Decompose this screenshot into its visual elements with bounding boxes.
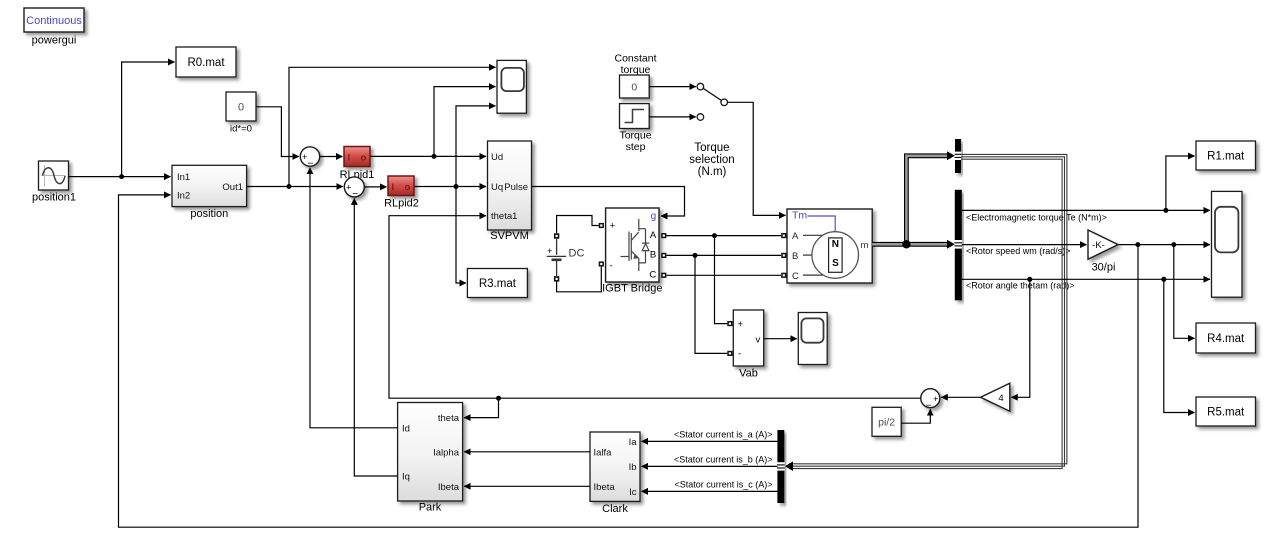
junction wm feedback [1135,242,1140,247]
svg-text:-: - [610,261,613,272]
svg-text:Pulse: Pulse [504,182,528,193]
junction on Out1 wire [287,184,292,189]
subsystem Park [398,403,463,502]
gain 4 (left pointing) [981,383,1010,411]
wire branch to scope1 input2 [434,87,496,157]
junction on Ud wire [432,154,437,159]
wire branch theta to Park [464,398,498,417]
svg-text:R3.mat: R3.mat [479,278,517,290]
wire stator current a to Clark Ia [642,440,778,442]
constant id*=0 [226,92,256,121]
svg-text:Id: Id [402,423,410,434]
sine source position1 [39,161,69,190]
svg-text:Ic: Ic [629,487,637,498]
junction on Te wire [1163,208,1168,213]
junction on position1 wire [119,174,124,179]
svg-text:step: step [626,141,646,153]
junction thetam to gain4 [1027,277,1032,282]
svg-text:torque: torque [621,64,651,76]
wire torque step to switch [649,116,696,118]
svg-text:position: position [190,208,228,220]
junction on phase A [712,233,717,238]
wire IGBT A to motor A [666,235,781,237]
svg-text:position1: position1 [32,192,76,204]
gain 30/pi [1088,230,1118,259]
wire gain4 to sum3 [941,396,980,398]
svg-text:S: S [832,258,839,269]
wire wm to gain [962,244,1087,246]
svg-text:Ib: Ib [629,462,637,473]
svg-text:Ialfa: Ialfa [594,447,613,458]
svg-text:RLpid2: RLpid2 [384,198,419,210]
wire speed feedback to In2 [119,195,1139,527]
wire branch to R1.mat [1166,156,1195,210]
wire stator current b to Clark Ib [642,465,778,467]
To File R4.mat [1196,323,1256,353]
svg-text:powergui: powergui [32,35,77,47]
svg-text:o: o [405,182,411,193]
svg-text:<Rotor speed wm (rad/s)>: <Rotor speed wm (rad/s)> [966,246,1071,256]
svg-text:DC: DC [569,247,585,259]
wire gain to scope3 [1118,244,1210,246]
wire branch phase B to Vab minus [695,255,727,353]
voltage measurement Vab [733,310,763,366]
stator current bus selector (bottom) [777,430,785,503]
wire IGBT C to motor C [666,274,781,276]
DC voltage source [547,233,585,281]
junction thetam to R5 [1161,277,1166,282]
svg-text:4: 4 [998,393,1003,404]
junction wm to R4 [1171,242,1176,247]
wire Clark Ibeta to Park Ibeta [464,485,590,487]
svg-text:0: 0 [631,81,637,93]
svg-text:B: B [650,250,656,261]
svg-text:pi/2: pi/2 [878,416,895,428]
svg-text:R1.mat: R1.mat [1207,151,1245,163]
wire thetam to scope3 [962,278,1210,280]
svg-text:+: + [302,152,307,162]
wire switch to motor Tm [728,102,786,215]
svg-text:Ud: Ud [491,152,503,163]
wire Pulse to IGBT g [532,187,685,217]
svg-text:-: - [738,349,741,360]
svg-text:Iq: Iq [402,472,410,483]
small bus selector (top) [955,139,962,173]
IGBT A B C port squares [661,233,666,278]
svg-text:<Stator current is_c (A)>: <Stator current is_c (A)> [674,480,772,490]
svg-text:-K-: -K- [1092,240,1105,251]
wire RLpid1 to Ud [370,155,486,157]
wire branch to R5.mat [1164,279,1195,412]
wire Vab v to scope2 [764,338,797,340]
svg-text:<Stator current is_b (A)>: <Stator current is_b (A)> [674,455,773,465]
wire sum1 to RLpid1 [320,156,343,158]
svg-text:B: B [792,251,798,262]
scope1 (3-input scope) [497,60,526,113]
wire Out1 to sum2 [247,186,343,188]
svg-text:+: + [610,220,616,231]
wire RLpid2 to Uq [414,186,486,188]
svg-text:m: m [861,240,869,251]
subsystem SVPVM [488,141,532,230]
svg-text:Torque: Torque [619,129,651,141]
big bus selector [954,190,962,300]
wire branch to R0.mat [122,62,175,177]
wire Clark Ialfa to Park Ialpha [464,451,590,453]
svg-text:IGBT Bridge: IGBT Bridge [602,283,662,295]
svg-text:In2: In2 [177,191,190,202]
svg-text:Continuous: Continuous [26,15,82,27]
wire Park Id feedback to sum1 [310,168,398,428]
constant torque 0 block [620,75,650,98]
red block RLpid1 [344,147,370,167]
bus small selector to stator bus selector [789,154,1067,463]
svg-text:N: N [832,239,839,250]
wire DC minus to IGBT [557,267,602,292]
svg-text:SVPVM: SVPVM [490,230,529,242]
svg-text:Constant: Constant [614,53,656,65]
junction on phase B [693,253,698,258]
svg-text:Ibeta: Ibeta [594,482,616,493]
svg-text:−: − [308,159,314,170]
bus motor m to big selector [872,242,951,247]
wire branch thetam to gain4 [1011,279,1030,397]
svg-text:g: g [651,211,657,222]
svg-text:C: C [792,271,799,282]
svg-text:In1: In1 [177,172,190,183]
PMSM motor block [787,209,872,283]
svg-text:Torque: Torque [694,142,729,154]
svg-text:+: + [547,246,552,256]
svg-text:Ialpha: Ialpha [433,447,460,458]
svg-text:(N.m): (N.m) [698,166,727,178]
svg-text:C: C [649,270,656,281]
wire id*=0 to sum1 [256,107,299,157]
wire Te to scope3 [962,209,1210,211]
wire IGBT B to motor B [666,254,781,256]
svg-text:Clark: Clark [602,503,628,515]
scope2 [798,313,827,365]
To File R3.mat [467,269,527,298]
wire Park Iq feedback to sum2 [354,198,397,476]
wire branch to R3.mat [456,187,466,284]
svg-text:<Electromagnetic torque Te (N*: <Electromagnetic torque Te (N*m)> [966,212,1107,222]
wire sum3 theta to SVPVM theta1 [389,216,921,399]
svg-text:l: l [348,153,351,164]
svg-text:theta1: theta1 [491,211,517,222]
wire branch to scope1 input3 [456,106,496,187]
bus junction [902,240,910,248]
bus branch up to small selector [906,156,951,245]
sum junction 2 (iq loop) [344,177,364,200]
step block Torque step [620,104,650,129]
svg-text:v: v [756,334,761,345]
svg-text:Out1: Out1 [222,182,243,193]
svg-text:−: − [352,189,358,200]
svg-text:R0.mat: R0.mat [187,57,225,69]
svg-text:id*=0: id*=0 [230,124,252,135]
svg-text:0: 0 [238,102,244,114]
svg-text:+: + [933,394,938,404]
wire branch to scope1 input1 [289,67,496,186]
wire sum2 to RLpid2 [364,186,386,188]
wire branch to R4.mat [1174,245,1195,339]
Vab port squares [727,321,732,356]
wire DC plus to IGBT [557,216,599,234]
To File R5.mat [1196,397,1256,426]
subsystem position [172,165,247,206]
constant pi/2 [872,407,901,436]
wire constant torque to switch [649,86,696,88]
svg-text:30/pi: 30/pi [1092,261,1116,273]
svg-text:A: A [650,230,657,241]
svg-text:+: + [346,182,351,192]
svg-text:A: A [792,231,799,242]
To File R1.mat [1196,141,1256,170]
junction on theta wire [496,396,501,401]
scope3 (big right scope) [1212,191,1243,297]
svg-text:<Stator current is_a (A)>: <Stator current is_a (A)> [674,430,773,440]
red block RLpid2 [388,176,414,196]
manual switch Torque selection [697,83,727,120]
svg-text:Park: Park [419,502,442,514]
To File R0.mat [176,47,236,77]
wire pi/2 to sum3 [901,409,930,423]
sum junction 1 (id loop) [300,147,319,170]
svg-text:l: l [392,182,395,193]
svg-text:o: o [361,153,367,164]
motor A B C port squares [781,233,786,278]
svg-text:Uq: Uq [491,182,503,193]
sum junction 3 (theta offset) [921,389,940,412]
wire position1 to In1 [69,176,171,178]
svg-text:Tm: Tm [792,210,807,222]
svg-text:<Rotor angle thetam (rad)>: <Rotor angle thetam (rad)> [966,281,1075,291]
svg-text:+: + [738,319,744,330]
IGBT Bridge block [606,208,659,282]
svg-text:selection: selection [689,154,734,166]
powergui block [24,8,84,32]
subsystem Clark [590,432,640,501]
wire stator current c to Clark Ic [642,490,778,492]
svg-text:theta: theta [438,413,460,424]
svg-text:R4.mat: R4.mat [1207,333,1245,345]
svg-text:Vab: Vab [739,367,758,379]
junction on Uq wire [454,184,459,189]
wire branch phase A to Vab plus [715,236,728,324]
svg-text:Ia: Ia [629,437,638,448]
svg-text:Ibeta: Ibeta [438,482,460,493]
svg-text:R5.mat: R5.mat [1207,407,1245,419]
IGBT + - port squares [599,223,604,267]
